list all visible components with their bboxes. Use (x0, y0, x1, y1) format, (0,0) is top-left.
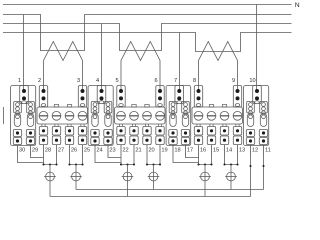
svg-text:25: 25 (84, 148, 90, 154)
svg-text:30: 30 (19, 148, 25, 154)
svg-text:21: 21 (135, 148, 141, 154)
svg-text:28: 28 (45, 148, 51, 154)
svg-text:14: 14 (226, 148, 232, 154)
svg-text:17: 17 (187, 148, 193, 154)
svg-text:18: 18 (174, 148, 180, 154)
svg-text:12: 12 (252, 148, 258, 154)
svg-text:23: 23 (109, 148, 115, 154)
svg-text:15: 15 (213, 148, 219, 154)
svg-text:29: 29 (32, 148, 38, 154)
svg-text:8: 8 (193, 78, 196, 84)
svg-text:N: N (295, 2, 300, 9)
svg-text:9: 9 (232, 78, 235, 84)
svg-text:5: 5 (115, 78, 118, 84)
svg-text:11: 11 (265, 148, 271, 154)
svg-text:26: 26 (71, 148, 77, 154)
svg-text:20: 20 (148, 148, 154, 154)
svg-text:6: 6 (154, 78, 157, 84)
svg-text:27: 27 (58, 148, 64, 154)
svg-text:7: 7 (174, 78, 177, 84)
svg-text:10: 10 (249, 78, 255, 84)
svg-text:3: 3 (77, 78, 80, 84)
svg-text:2: 2 (38, 78, 41, 84)
svg-text:16: 16 (200, 148, 206, 154)
svg-text:22: 22 (122, 148, 128, 154)
svg-text:19: 19 (161, 148, 167, 154)
svg-text:4: 4 (96, 78, 99, 84)
svg-text:1: 1 (18, 78, 21, 84)
svg-text:13: 13 (239, 148, 245, 154)
svg-text:24: 24 (96, 148, 102, 154)
